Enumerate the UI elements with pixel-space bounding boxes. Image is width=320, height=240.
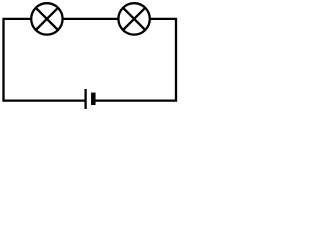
wire: left loop (top-left stub, left vertical, bottom-left run to battery) [4, 19, 85, 101]
wire: right loop (top-right stub, right vertical, bottom-right run to battery) [96, 19, 177, 101]
wire: top middle segment between lamps [63, 18, 118, 20]
battery cell: short thick plate (right terminal) [91, 93, 96, 105]
battery cell: long thin plate (left terminal) [84, 89, 86, 109]
lamp L2 (right, circle with X) [118, 3, 149, 34]
lamp L1 (left, circle with X) [31, 3, 62, 34]
